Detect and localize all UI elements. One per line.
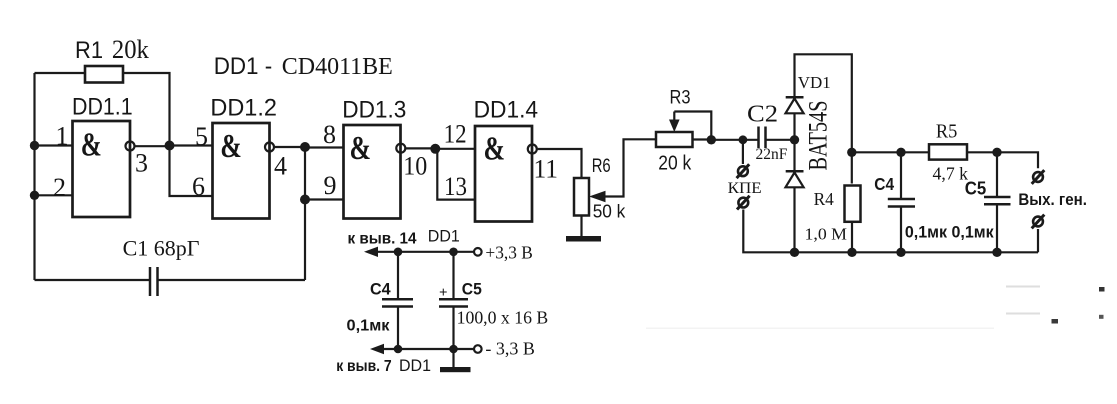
capacitor C2 plates (759, 127, 766, 149)
svg-text:CD4011BE: CD4011BE (282, 54, 393, 80)
wire: C2 right lead (766, 139, 795, 141)
svg-text:2: 2 (53, 173, 66, 202)
svg-text:+: + (439, 285, 448, 301)
capacitor C1 right lead (158, 279, 306, 281)
wire: R1 right lead down to node A (123, 73, 170, 146)
wire: node D to C2 (711, 139, 758, 141)
wire: diode mid node (793, 113, 795, 171)
terminal output bottom (1032, 215, 1045, 229)
wire: C5b top stub (996, 152, 998, 197)
svg-text:12: 12 (444, 119, 467, 148)
wire: DD1.2 out to node B (274, 146, 305, 148)
wire: R4 top lead (851, 152, 853, 183)
svg-text:- 3,3 В: - 3,3 В (485, 339, 535, 359)
inverter bubble DD1.3 output (396, 144, 405, 153)
svg-text:&: & (350, 130, 372, 167)
diode VD1 lower triangle (786, 173, 804, 188)
svg-text:8: 8 (323, 120, 336, 149)
svg-text:20k: 20k (112, 35, 149, 64)
wire: VD1 bottom lead (793, 187, 795, 252)
svg-text:BAT54S: BAT54S (804, 101, 833, 171)
wire: C4b bottom stub (900, 207, 902, 253)
speck right 1 (1099, 287, 1105, 292)
svg-text:DD1: DD1 (399, 356, 431, 375)
svg-text:1,0 М: 1,0 М (805, 224, 848, 243)
svg-text:R5: R5 (936, 122, 958, 143)
svg-text:C4: C4 (370, 279, 391, 298)
inverter bubble DD1.1 output (126, 142, 135, 151)
diode VD1 lower cathode bar (786, 170, 804, 173)
svg-text:4,7 k: 4,7 k (933, 164, 969, 184)
wire: C4b top stub (900, 152, 902, 199)
wire: KPE top stub (742, 140, 744, 164)
wire: R3 wiper top link (674, 112, 711, 140)
junction dot +rail C4 (394, 248, 403, 257)
terminal KPE top (737, 164, 750, 178)
wire: R3 wiper stem (673, 112, 675, 122)
capacitor C4 power plates (382, 299, 413, 306)
wire: pin 8 (305, 146, 344, 148)
wire: VD1 top link rail (795, 54, 852, 152)
junction dot C4b top (896, 148, 905, 157)
svg-text:C4: C4 (874, 174, 894, 194)
resistor R4 body (845, 186, 861, 222)
svg-text:к выв. 14: к выв. 14 (348, 230, 417, 247)
junction dot output node (847, 148, 856, 157)
svg-text:11: 11 (534, 155, 559, 184)
ground bar R6 (566, 236, 601, 242)
junction dot KPE tap (739, 135, 748, 144)
svg-text:DD1: DD1 (428, 227, 460, 246)
svg-text:к выв. 7: к выв. 7 (336, 358, 392, 375)
svg-text:R6: R6 (592, 156, 611, 177)
svg-text:DD1.3: DD1.3 (342, 97, 406, 124)
svg-text:&: & (484, 130, 506, 167)
junction dot rail below R4 (847, 248, 856, 257)
wire: output node to R5 (852, 151, 929, 153)
svg-text:R4: R4 (814, 189, 834, 209)
junction dot rail pin2 (30, 191, 39, 200)
wire: C4 power top stub (397, 252, 399, 299)
wire: C5 power bottom stub (452, 307, 454, 350)
svg-text:VD1: VD1 (798, 73, 831, 92)
wire: power ground stub (452, 349, 454, 367)
faint scan line 2 (1006, 313, 1040, 315)
diode VD1 upper triangle (786, 99, 804, 114)
svg-text:0,1мк: 0,1мк (347, 318, 391, 335)
junction dot rail pin1 (30, 141, 39, 150)
svg-text:DD1.2: DD1.2 (210, 95, 277, 122)
svg-text:10: 10 (403, 151, 427, 180)
capacitor C5 power plates (439, 299, 468, 306)
svg-text:4: 4 (274, 152, 287, 181)
gate DD1.1 box (73, 121, 131, 217)
faint scan line 3 (646, 328, 994, 330)
svg-text:100,0 x 16 В: 100,0 x 16 В (457, 308, 549, 328)
junction dot node B lower (300, 195, 310, 205)
svg-text:&: & (81, 127, 102, 164)
wire: pin 1 (35, 144, 73, 146)
wire: left input rail (33, 73, 35, 280)
resistor R6 body (574, 178, 589, 216)
svg-text:R1: R1 (75, 37, 103, 64)
wire: out terminal bottom stub (1037, 229, 1039, 252)
svg-text:R3: R3 (670, 88, 691, 109)
junction dot node A (165, 141, 175, 151)
wire: pin 6 L-link (170, 146, 213, 197)
svg-text:22nF: 22nF (756, 146, 788, 163)
wire: node B vertical to C1 (304, 147, 306, 280)
svg-text:DD1.4: DD1.4 (474, 96, 538, 123)
R3 wiper arrow (669, 120, 680, 133)
svg-text:DD1.1: DD1.1 (72, 94, 133, 121)
svg-text:1: 1 (56, 122, 69, 151)
svg-text:9: 9 (324, 171, 337, 200)
svg-text:C2: C2 (747, 101, 778, 127)
junction dot node B upper (300, 142, 310, 152)
faint scan line 1 (1006, 286, 1040, 288)
svg-text:13: 13 (444, 172, 467, 201)
wire: pin 9 (305, 198, 344, 200)
wire: R6 wiper to R3 left (603, 139, 656, 196)
wire: pin 13 L-link (437, 149, 475, 200)
junction dot node D (707, 135, 716, 144)
wire: pin 12 (435, 148, 475, 150)
svg-text:DD1 -: DD1 - (214, 53, 273, 80)
gate DD1.3 box (344, 125, 401, 219)
wire: DD1.3 out to node C (405, 147, 435, 149)
wire: pin 2 (35, 194, 73, 196)
arrow to pin7 DD1 (370, 344, 384, 354)
wire: bottom rail (795, 251, 1039, 253)
wire: C5 power top stub (452, 252, 454, 299)
terminal circle -3.3V (474, 345, 482, 353)
wire: C5b bottom stub (996, 204, 998, 252)
wire: R5 right to out terminal (967, 152, 1038, 168)
capacitor C1 plates (150, 267, 158, 296)
svg-text:&: & (220, 128, 242, 165)
inverter bubble DD1.2 output (265, 143, 274, 152)
junction dot rail below C4b (896, 248, 905, 257)
wire: pin 5 (170, 144, 213, 146)
junction dot C5b top (992, 148, 1001, 157)
resistor R3 body (656, 132, 693, 147)
svg-text:Вых. ген.: Вых. ген. (1018, 190, 1087, 209)
wire: DD1.1 out to node A (135, 145, 170, 147)
wire: R6 bottom to ground (580, 216, 582, 237)
wire: KPE bottom stub to rail (743, 210, 794, 253)
svg-text:C5: C5 (462, 279, 482, 298)
svg-text:3: 3 (135, 149, 148, 178)
wire: +3.3V rail (375, 251, 474, 253)
junction dot rail below C5b (992, 248, 1001, 257)
svg-text:+3,3 В: +3,3 В (485, 242, 533, 262)
wire: DD1.4 out to R6 top (537, 149, 582, 178)
capacitor C1 left lead (35, 279, 151, 281)
capacitor C4 (out) plates (888, 199, 915, 207)
speck right 2 (1052, 319, 1059, 324)
svg-text:6: 6 (192, 172, 205, 201)
junction dot -rail C4 (394, 345, 403, 354)
wire: -3.3V rail (381, 348, 474, 350)
svg-text:20 k: 20 k (658, 152, 692, 174)
wire: R1 left lead (35, 72, 86, 74)
inverter bubble DD1.4 output (528, 145, 537, 154)
diode VD1 upper cathode bar (786, 96, 804, 99)
wire: R4 bottom lead (851, 221, 853, 252)
svg-text:C1 68pГ: C1 68pГ (123, 236, 200, 261)
junction dot +rail C5 (449, 248, 458, 257)
gate DD1.2 box (213, 123, 270, 219)
junction dot -rail C5 (449, 345, 458, 354)
gate DD1.4 box (475, 126, 532, 222)
svg-text:0,1мк 0,1мк: 0,1мк 0,1мк (905, 224, 994, 242)
junction dot rail below VD1 (790, 248, 799, 257)
capacitor C5 (out) plates (984, 197, 1011, 204)
resistor R1 (85, 66, 123, 83)
wire: C4 power bottom stub (397, 307, 399, 350)
junction dot diode mid (790, 135, 799, 144)
ground bar power (440, 367, 471, 372)
terminal circle +3.3V (474, 248, 482, 256)
svg-text:5: 5 (195, 122, 208, 151)
resistor R5 body (929, 144, 967, 159)
arrow to pin14 DD1 (364, 247, 378, 257)
terminal output top (1032, 170, 1045, 184)
terminal KPE bottom (737, 196, 750, 210)
wire: R3 right lead (693, 138, 712, 140)
speck right 3 (1099, 315, 1104, 319)
junction dot node C (430, 144, 440, 154)
R6 wiper arrow (589, 191, 606, 203)
svg-text:50 k: 50 k (593, 202, 627, 222)
svg-text:КПЕ: КПЕ (728, 180, 762, 197)
